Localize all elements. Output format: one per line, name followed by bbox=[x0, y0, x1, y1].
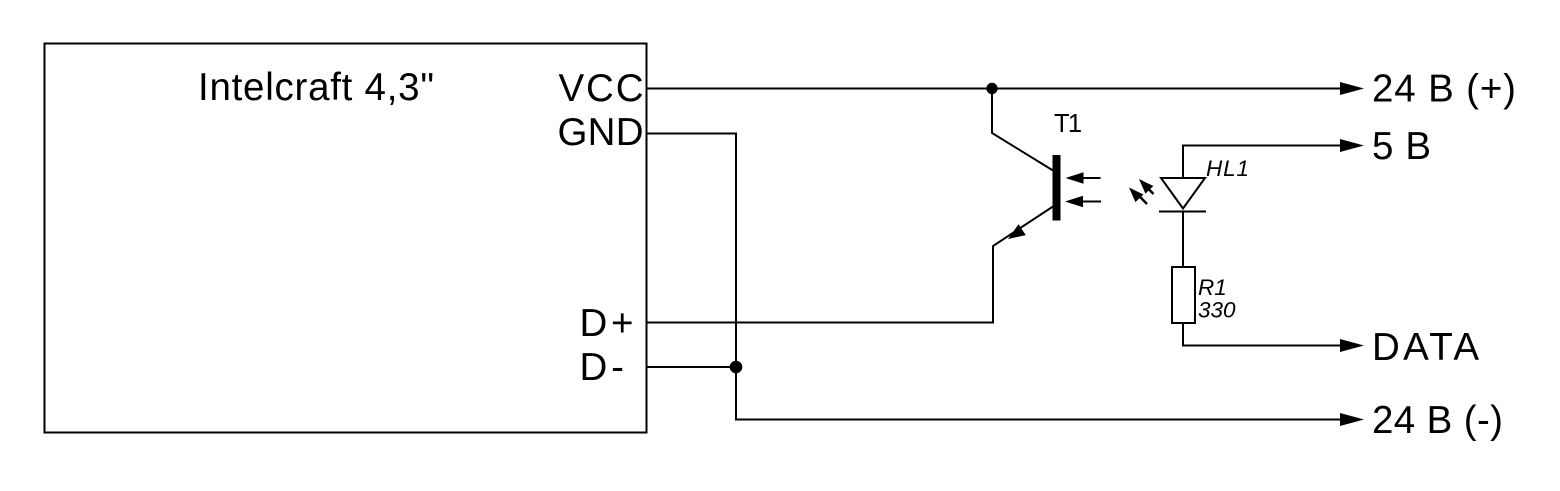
svg-text:5 В: 5 В bbox=[1372, 125, 1431, 168]
svg-text:VCC: VCC bbox=[559, 67, 644, 110]
svg-text:T1: T1 bbox=[1054, 110, 1082, 138]
svg-text:Intelcraft 4,3": Intelcraft 4,3" bbox=[198, 66, 434, 109]
svg-text:HL1: HL1 bbox=[1206, 156, 1249, 181]
svg-text:D-: D- bbox=[580, 346, 625, 389]
svg-text:24 В (+): 24 В (+) bbox=[1372, 68, 1516, 111]
svg-text:D+: D+ bbox=[580, 302, 634, 345]
svg-text:R1: R1 bbox=[1198, 275, 1227, 300]
svg-text:GND: GND bbox=[558, 111, 644, 154]
svg-text:24 В (-): 24 В (-) bbox=[1372, 399, 1503, 442]
svg-text:DATA: DATA bbox=[1372, 326, 1479, 369]
svg-text:330: 330 bbox=[1198, 297, 1236, 322]
